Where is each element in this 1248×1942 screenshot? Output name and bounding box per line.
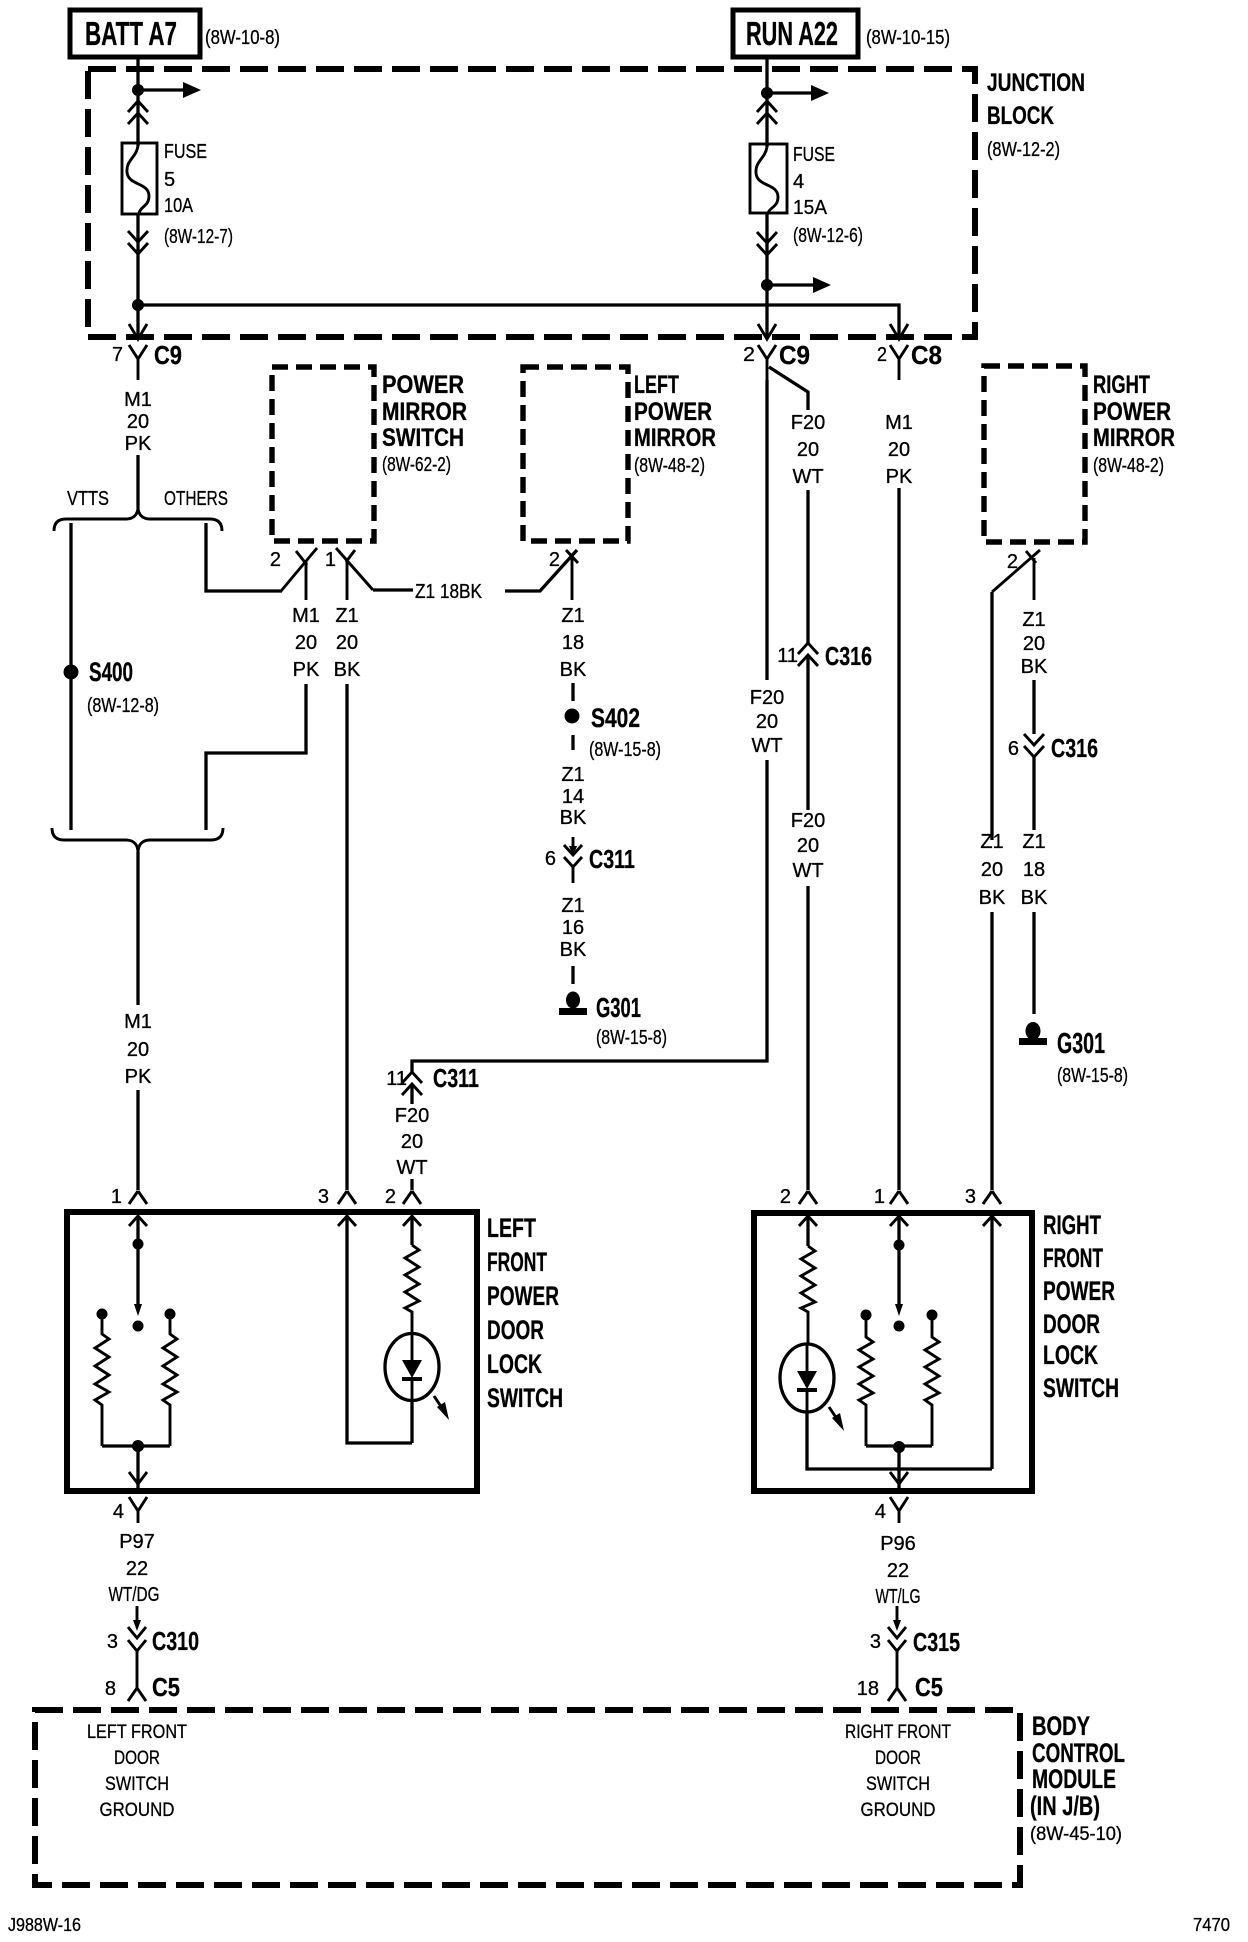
wire merge brace down [136,852,139,1005]
svg-text:S400: S400 [89,657,133,687]
connector chevrons down (fuse 4 output) [757,232,777,255]
pin 1 entry arrow [890,1216,908,1226]
pin 3 connector (right box) [965,1186,1001,1208]
svg-text:(8W-12-2): (8W-12-2) [987,139,1060,161]
svg-text:(8W-10-8): (8W-10-8) [205,27,280,49]
resistor right (unlock) [163,1316,177,1446]
svg-text:15A: 15A [793,197,828,219]
svg-text:POWER: POWER [382,371,464,399]
pin 4 connector (right box) [875,1497,908,1523]
right front power door lock switch box [754,1213,1032,1491]
svg-text:F20: F20 [791,412,825,434]
svg-text:20: 20 [1023,633,1045,655]
svg-text:C9: C9 [154,340,182,370]
svg-text:BK: BK [560,939,587,961]
svg-text:WT: WT [751,735,782,757]
switch wiper from pin 1 [133,1216,144,1332]
svg-text:C5: C5 [915,1672,943,1702]
svg-text:S402: S402 [591,703,640,733]
chevron at border exit C8 pin2 [890,324,908,339]
wire C9 pin2 straight down [765,380,768,680]
svg-text:20: 20 [336,632,358,654]
wire segment to G301 left [571,966,574,984]
svg-text:SWITCH: SWITCH [1043,1373,1119,1403]
svg-text:WT: WT [792,860,823,882]
svg-text:3: 3 [965,1186,976,1208]
svg-text:C311: C311 [433,1063,479,1093]
wire M1 mirror switch pin2 to merge brace [206,684,306,830]
svg-text:20: 20 [127,1039,149,1061]
right power mirror pin 2 [992,550,1040,600]
splice S402 [565,703,662,761]
wire C316 pin6 down [1032,757,1035,830]
pin 4 connector (left box) [113,1497,147,1523]
svg-text:4: 4 [875,1501,886,1523]
wire label M1 20 PK (mirror switch pin2) [292,605,320,681]
arrow feed right [138,82,201,98]
svg-text:M1: M1 [885,412,913,434]
switch contact left (right box) [861,1310,872,1321]
svg-text:GROUND: GROUND [100,1800,175,1821]
wire F20 routing from C9 to C311 [412,760,767,1072]
svg-text:20: 20 [797,439,819,461]
power feed box RUN A22 [733,10,858,57]
wire to door lock switch pin1 [136,1090,139,1190]
led indicator (right box) [780,1344,844,1431]
wire to left door lock switch pin2 [410,1179,413,1190]
wire label F20 20 WT (x412) [395,1105,429,1179]
svg-text:PK: PK [886,466,913,488]
svg-text:20: 20 [888,439,910,461]
left door lock switch label [487,1213,563,1413]
svg-text:6: 6 [1008,738,1019,760]
connector C9 pin 2 [743,340,810,380]
wire segment S402 down [571,735,574,750]
mirror switch pin 1 [325,548,373,600]
svg-text:F20: F20 [791,810,825,832]
wire led to pin3 return [807,1412,992,1469]
svg-text:PK: PK [293,659,320,681]
svg-text:3: 3 [107,1631,118,1653]
switch contact right (right box) [927,1310,938,1321]
wire M1 down to option brace [136,455,139,508]
connector chevrons up (fuse 5 input) [128,101,148,124]
junction block label [987,69,1085,161]
svg-text:2: 2 [549,549,560,571]
pin 3 entry arrow [983,1216,1001,1226]
wire label M1 20 PK (C9 pin7) [124,389,152,455]
svg-text:Z1: Z1 [335,605,358,627]
svg-text:Z1: Z1 [1022,609,1045,631]
connector C310 pin 3 [107,1606,199,1674]
power feed box BATT A7 [70,10,200,57]
pin 3 connector (left box) [318,1186,356,1208]
svg-text:RIGHT: RIGHT [1093,371,1150,399]
pin 2 entry arrow [799,1216,817,1226]
svg-text:Z1: Z1 [561,605,584,627]
switch common join [102,1440,170,1489]
wire led to return [410,1400,413,1443]
connector C5 pin 8 [105,1672,180,1702]
connector C316 pin 6 [1008,733,1098,763]
wire to C316 pin6 [1032,680,1035,734]
left power mirror box [523,367,628,541]
left power mirror label [634,371,716,477]
svg-text:BATT A7: BATT A7 [85,15,177,52]
wire label Z1 18 BK (left mirror pin2) [560,605,587,681]
svg-text:C310: C310 [152,1626,199,1656]
svg-text:(8W-48-2): (8W-48-2) [1093,455,1164,477]
connector C311 pin 11 [386,1063,479,1095]
M1 bus wire to C8 [138,305,899,337]
svg-text:18: 18 [562,632,584,654]
wire label Z1 14 BK [560,764,587,829]
svg-text:BK: BK [1021,887,1048,909]
wire pin2 to resistor [410,1216,413,1245]
svg-text:20: 20 [127,411,149,433]
svg-text:LOCK: LOCK [487,1349,542,1379]
right door lock switch label [1043,1210,1119,1403]
wire OTHERS branch to mirror switch pin 2 [206,523,282,591]
svg-text:LEFT FRONT: LEFT FRONT [87,1722,187,1743]
body control module dashed border [35,1710,1020,1885]
svg-text:BK: BK [560,659,587,681]
svg-text:7470: 7470 [1193,1915,1230,1935]
connector C9 pin 7 [112,340,182,380]
fuse 5 labels [164,141,233,248]
connector C8 pin 2 [877,340,942,380]
wire C316 down [806,655,809,810]
right power mirror box [984,366,1085,542]
pin 3 entry arrow [338,1216,356,1226]
svg-text:20: 20 [797,835,819,857]
pin 2 entry arrow [403,1216,421,1226]
svg-text:16: 16 [562,917,584,939]
svg-text:2: 2 [743,344,755,366]
svg-text:2: 2 [877,344,887,366]
svg-text:(8W-15-8): (8W-15-8) [589,739,661,761]
connector C315 pin 3 [870,1606,960,1674]
svg-text:FUSE: FUSE [164,141,207,163]
svg-text:POWER: POWER [487,1281,559,1311]
junction dot M1 splice [132,299,144,311]
svg-text:1: 1 [874,1186,885,1208]
svg-text:(8W-15-8): (8W-15-8) [1057,1065,1128,1087]
wire fuse 5 to C9 [136,214,139,337]
svg-text:C9: C9 [779,340,810,370]
wire label M1 20 PK (C8) [885,412,913,488]
wire C311 down [410,1084,413,1104]
wire RUN A22 down to fuse 4 [765,57,768,147]
svg-text:Z1 18BK: Z1 18BK [415,581,483,603]
svg-text:PK: PK [125,433,152,455]
svg-text:(8W-12-8): (8W-12-8) [87,695,159,717]
svg-text:MIRROR: MIRROR [634,424,716,452]
left power mirror pin 2 [549,549,578,600]
svg-text:F20: F20 [750,687,784,709]
svg-text:RIGHT FRONT: RIGHT FRONT [845,1722,951,1743]
option brace top [54,507,222,531]
wire label M1 20 PK (to door lock pin1) [124,1011,152,1088]
junction dot BATT feed [132,84,144,96]
label left front door switch ground [87,1722,187,1821]
svg-text:DOOR: DOOR [487,1315,544,1345]
pin 2 connector (right box) [780,1186,817,1208]
svg-text:20: 20 [295,632,317,654]
junction dot F20 splice [761,279,773,291]
wire Z1 18BK to left power mirror [373,550,577,603]
wire C9 pin2 diagonal branch [769,367,808,410]
svg-text:Z1: Z1 [561,764,584,786]
svg-text:11: 11 [777,645,798,667]
svg-text:10A: 10A [164,195,194,217]
svg-text:RUN A22: RUN A22 [746,15,838,52]
svg-text:DOOR: DOOR [114,1748,160,1769]
svg-text:DOOR: DOOR [1043,1309,1100,1339]
power mirror switch box [272,367,374,541]
wire x992 down to right door lock switch pin3 [990,912,993,1190]
svg-text:2: 2 [385,1186,396,1208]
svg-text:BLOCK: BLOCK [987,102,1054,130]
wire label F20 20 WT (x808 lower) [791,810,825,882]
wire label Z1 20 BK (mirror switch pin1) [334,605,361,681]
svg-text:OTHERS: OTHERS [164,488,228,510]
svg-text:G301: G301 [1057,1028,1105,1060]
connector C311 pin 6 [545,837,635,883]
pin 1 connector (right box) [874,1186,908,1208]
resistor right (right box) [925,1318,939,1446]
connector chevrons up (fuse 4 input) [757,101,777,124]
junction block dashed border [88,69,975,337]
led indicator (left box) [385,1334,449,1421]
svg-text:(8W-62-2): (8W-62-2) [382,454,451,476]
wire pin3 down to led return [990,1216,993,1469]
svg-text:WT/DG: WT/DG [109,1584,160,1606]
connector C5 pin 18 [857,1672,943,1702]
svg-text:SWITCH: SWITCH [105,1774,169,1795]
svg-text:7: 7 [112,344,123,366]
svg-text:BK: BK [334,659,361,681]
splice S400 [64,657,160,717]
svg-text:G301: G301 [596,992,641,1023]
svg-text:20: 20 [756,711,778,733]
svg-text:18: 18 [857,1678,879,1700]
body control module label [1030,1711,1125,1845]
wire label P96 22 WT/LG [876,1533,921,1608]
fuse 4 labels [793,144,863,247]
svg-text:MIRROR: MIRROR [1093,424,1175,452]
svg-text:POWER: POWER [634,398,712,426]
svg-text:(IN J/B): (IN J/B) [1030,1791,1100,1821]
svg-text:(8W-48-2): (8W-48-2) [634,455,705,477]
svg-text:C316: C316 [1051,733,1098,763]
svg-text:M1: M1 [124,389,152,411]
svg-text:PK: PK [125,1066,152,1088]
svg-text:1: 1 [111,1186,122,1208]
svg-text:BK: BK [560,807,587,829]
connector chevrons down (fuse 5 output) [128,231,148,254]
arrow feed right [767,85,829,101]
svg-text:BK: BK [1021,656,1048,678]
svg-text:P97: P97 [119,1531,155,1553]
arrow F20 right [767,277,831,293]
switch common join (right box) [866,1441,932,1489]
svg-text:6: 6 [545,848,556,870]
wire fuse 4 to C9 [765,213,768,337]
pin 1 connector (left box) [111,1186,147,1208]
svg-text:Z1: Z1 [1022,831,1045,853]
ground G301 (left) [559,992,667,1050]
svg-text:P96: P96 [880,1533,916,1555]
svg-text:J988W-16: J988W-16 [8,1915,81,1935]
wire C8 down to right door lock switch pin1 [897,488,900,1190]
fuse 5 [122,143,157,214]
svg-text:C315: C315 [913,1627,960,1657]
svg-text:Z1: Z1 [561,895,584,917]
svg-text:4: 4 [113,1501,124,1523]
svg-text:(8W-12-7): (8W-12-7) [164,226,233,248]
svg-text:2: 2 [780,1186,791,1208]
svg-text:BK: BK [979,887,1006,909]
svg-text:18: 18 [1023,859,1045,881]
wire label Z1 16 BK [560,895,587,961]
wire segment to S402 [571,683,574,701]
svg-text:GROUND: GROUND [861,1800,936,1821]
wire label P97 22 WT/DG [109,1531,160,1606]
svg-text:F20: F20 [395,1105,429,1127]
mirror switch pin 2 [270,548,317,600]
merge brace bottom [52,828,223,853]
svg-text:(8W-45-10): (8W-45-10) [1030,1824,1122,1845]
power mirror switch label [382,371,467,476]
right power mirror label [1093,371,1175,477]
fuse 4 [750,144,787,213]
label right front door switch ground [845,1722,951,1821]
junction dot RUN feed [761,87,773,99]
svg-text:(8W-10-15): (8W-10-15) [866,27,950,49]
svg-text:M1: M1 [292,605,320,627]
resistor led (left box) [405,1245,419,1334]
svg-text:20: 20 [401,1131,423,1153]
resistor led (right box) [801,1246,815,1344]
connector C316 pin 11 [777,641,872,671]
ground G301 (right) [1019,1022,1128,1087]
svg-text:3: 3 [870,1631,881,1653]
svg-text:VTTS: VTTS [67,488,109,510]
svg-text:SWITCH: SWITCH [487,1383,563,1413]
svg-text:BODY: BODY [1032,1711,1090,1741]
pin 1 entry arrow [129,1216,147,1226]
svg-text:14: 14 [562,786,584,808]
svg-text:LOCK: LOCK [1043,1340,1098,1370]
svg-text:POWER: POWER [1043,1276,1115,1306]
pin 2 connector (left box) [385,1186,421,1208]
svg-text:JUNCTION: JUNCTION [987,69,1085,97]
wire label F20 20 WT (x808 upper) [791,412,825,488]
svg-text:3: 3 [318,1186,329,1208]
switch contact left [97,1309,108,1320]
svg-text:5: 5 [164,169,175,191]
svg-text:MIRROR: MIRROR [382,398,467,426]
svg-text:(8W-12-6): (8W-12-6) [793,225,863,247]
svg-text:SWITCH: SWITCH [866,1774,930,1795]
chevron at border exit C9 pin7 [129,324,147,339]
wire VTTS branch to S400 [69,523,72,830]
svg-text:SWITCH: SWITCH [382,424,464,452]
svg-text:(8W-15-8): (8W-15-8) [596,1027,667,1049]
wire x808 down to right door lock switch pin2 [806,886,809,1190]
svg-text:FUSE: FUSE [793,144,835,166]
svg-text:LEFT: LEFT [634,371,679,399]
wire pin3 to led return [347,1216,412,1443]
svg-text:M1: M1 [124,1011,152,1033]
wire Z1 mirror switch pin1 down to door lock switch pin3 [345,684,348,1190]
svg-text:FRONT: FRONT [487,1247,547,1277]
svg-text:C8: C8 [911,340,942,370]
svg-text:C311: C311 [589,844,635,874]
switch contact right [165,1309,176,1320]
resistor left (lock) [95,1316,109,1446]
svg-text:MODULE: MODULE [1032,1764,1116,1794]
svg-text:22: 22 [887,1560,909,1582]
wire right mirror diagonal branch down [990,592,993,840]
resistor left (right box) [859,1318,873,1446]
svg-text:WT: WT [396,1157,427,1179]
left front power door lock switch box [67,1212,477,1491]
wire label Z1 20 BK (x992) [979,831,1006,909]
svg-text:POWER: POWER [1093,398,1171,426]
svg-text:8: 8 [105,1678,116,1700]
svg-text:WT/LG: WT/LG [876,1586,921,1608]
svg-text:4: 4 [793,171,804,193]
svg-text:2: 2 [270,549,281,571]
svg-text:LEFT: LEFT [487,1213,536,1243]
wire segment to G301 right [1032,912,1035,1014]
svg-text:FRONT: FRONT [1043,1243,1103,1273]
wire x808 down to C316 [806,490,809,643]
chevron at border exit C9 pin2 [758,324,776,339]
wire label Z1 20 BK (right mirror straight) [1021,609,1048,678]
wire BATT A7 down to fuse 5 [136,57,139,146]
svg-text:1: 1 [325,549,336,571]
wire label Z1 18 BK [1021,831,1048,909]
svg-text:C5: C5 [152,1672,180,1702]
svg-text:20: 20 [981,859,1003,881]
svg-text:C316: C316 [825,641,872,671]
svg-text:WT: WT [792,466,823,488]
svg-text:Z1: Z1 [980,831,1003,853]
svg-text:22: 22 [126,1558,148,1580]
wire label F20 20 WT (x767) [750,687,784,757]
wire pin2 to resistor [806,1216,809,1246]
svg-text:RIGHT: RIGHT [1043,1210,1101,1240]
switch wiper from pin 1 (right box) [894,1216,905,1332]
svg-text:DOOR: DOOR [875,1748,921,1769]
